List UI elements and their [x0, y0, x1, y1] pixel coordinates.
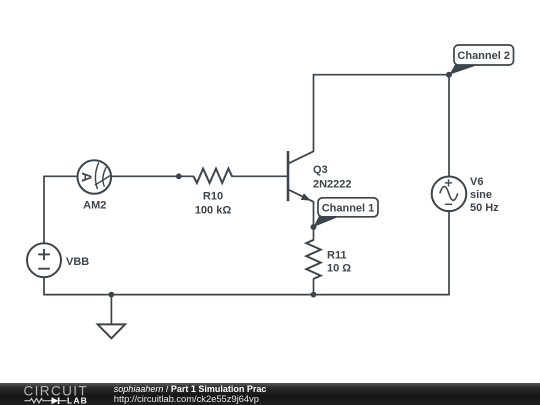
svg-text:VBB: VBB — [66, 256, 89, 268]
wire collector vertical up to top rail — [313, 75, 315, 152]
ammeter AM2 — [78, 160, 112, 194]
svg-text:100 kΩ: 100 kΩ — [195, 204, 232, 216]
svg-text:Channel 2: Channel 2 — [457, 50, 510, 62]
wire R10 to transistor base — [232, 175, 288, 177]
wire bottom rail — [44, 294, 449, 296]
wire right vertical bottom (V6 to bottom rail) — [448, 211, 450, 295]
CircuitLab logo — [0, 383, 110, 405]
node Channel 2 callout — [449, 45, 513, 75]
wire right vertical top (rail down to V6) — [448, 75, 450, 177]
node Channel 1 callout — [314, 198, 379, 227]
node junction dot (ground on bottom rail) — [109, 292, 115, 298]
svg-text:sine: sine — [470, 189, 492, 201]
node junction dot (top rail / channel 2 probe) — [446, 72, 452, 78]
svg-text:2N2222: 2N2222 — [313, 178, 352, 190]
wire emitter vertical down to R11 — [313, 202, 315, 240]
V6 labels — [470, 176, 499, 214]
resistor R11 — [306, 240, 320, 279]
wire ammeter to resistor R10 — [111, 175, 193, 177]
voltage source V6 (sine) — [432, 177, 467, 212]
svg-text:AM2: AM2 — [83, 199, 106, 211]
transistor Q3 labels — [313, 164, 352, 190]
svg-text:A: A — [79, 172, 95, 182]
transistor Q3 (NPN 2N2222) — [288, 151, 314, 202]
svg-text:10 Ω: 10 Ω — [327, 262, 351, 274]
svg-text:LAB: LAB — [67, 395, 88, 405]
node junction dot (base rail) — [176, 173, 182, 179]
ground — [98, 324, 125, 338]
svg-text:Channel 1: Channel 1 — [322, 202, 375, 214]
node junction dot (emitter / channel 1 probe) — [311, 224, 317, 230]
svg-text:R11: R11 — [327, 249, 347, 261]
wire ground stub — [110, 295, 112, 325]
svg-text:R10: R10 — [203, 190, 223, 202]
node junction dot (R11 bottom on bottom rail) — [311, 292, 317, 298]
footer bar — [0, 383, 540, 405]
svg-text:V6: V6 — [470, 176, 483, 188]
resistor R11 labels — [327, 249, 351, 274]
resistor R10 — [194, 169, 233, 183]
resistor R10 labels — [195, 190, 232, 216]
svg-text:50 Hz: 50 Hz — [470, 202, 499, 214]
wire left vertical (ammeter column down to VBB top) — [43, 176, 45, 243]
wire VBB bottom to bottom rail — [43, 277, 45, 294]
wire top rail — [314, 74, 450, 76]
voltage source VBB — [27, 243, 61, 277]
transistor Q3 emitter arrowhead — [301, 193, 311, 200]
wire left horizontal from corner to ammeter — [44, 175, 77, 177]
svg-text:Q3: Q3 — [313, 164, 328, 176]
wire R11 bottom lead — [313, 279, 315, 295]
